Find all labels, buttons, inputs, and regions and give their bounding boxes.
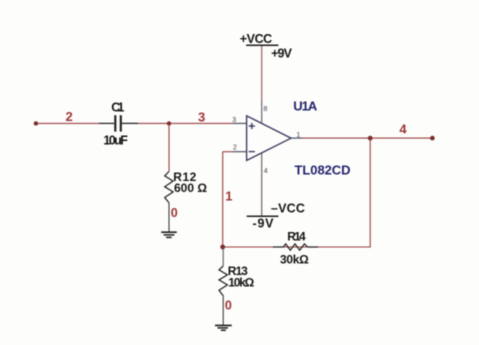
svg-text:+9V: +9V bbox=[271, 46, 293, 60]
svg-text:10kΩ: 10kΩ bbox=[228, 276, 254, 290]
wire VCC to pin8 bbox=[261, 45, 263, 100]
svg-text:1: 1 bbox=[225, 189, 232, 204]
svg-text:600 Ω: 600 Ω bbox=[174, 181, 207, 195]
svg-text:3: 3 bbox=[198, 109, 205, 124]
node output junction bbox=[368, 136, 373, 141]
svg-text:0: 0 bbox=[225, 299, 232, 313]
svg-text:R14: R14 bbox=[287, 230, 306, 244]
svg-text:TL082CD: TL082CD bbox=[295, 163, 351, 178]
svg-text:U1A: U1A bbox=[293, 99, 318, 114]
svg-text:1: 1 bbox=[296, 132, 300, 139]
svg-text:–VCC: –VCC bbox=[271, 202, 305, 216]
capacitor C1 bbox=[99, 115, 138, 131]
svg-text:C1: C1 bbox=[111, 101, 124, 115]
svg-text:2: 2 bbox=[66, 109, 73, 124]
svg-text:4: 4 bbox=[399, 122, 407, 137]
svg-text:2: 2 bbox=[233, 145, 237, 152]
wire R13 to ground bbox=[222, 296, 224, 326]
wire net2 input horizontal bbox=[36, 122, 99, 124]
svg-text:8: 8 bbox=[264, 106, 268, 113]
pin stub - input bbox=[233, 151, 247, 153]
node feedback junction bbox=[220, 245, 225, 250]
resistor R14 bbox=[273, 244, 318, 250]
svg-text:30kΩ: 30kΩ bbox=[280, 253, 309, 267]
wire junction to R13 bbox=[222, 247, 224, 266]
svg-text:3: 3 bbox=[232, 117, 236, 124]
pin stub + input bbox=[233, 122, 247, 124]
op-amp U1 bbox=[247, 116, 291, 161]
wire feedback right vertical bbox=[369, 138, 371, 247]
resistor R13 bbox=[219, 266, 227, 296]
wire net1 inverting input vertical bbox=[222, 152, 224, 247]
ground bottom bbox=[215, 325, 232, 330]
wire net4 output bbox=[302, 137, 432, 139]
resistor R12 bbox=[165, 172, 173, 203]
ground bbox=[161, 232, 177, 237]
wire branch down to R12 bbox=[168, 123, 170, 171]
wire feedback bottom horizontal bbox=[223, 246, 371, 248]
power +VCC bbox=[246, 44, 278, 46]
svg-text:0: 0 bbox=[171, 206, 178, 220]
power -VCC bbox=[247, 215, 279, 217]
svg-text:-9V: -9V bbox=[253, 217, 275, 231]
svg-text:4: 4 bbox=[264, 168, 268, 175]
wire pin4 to -VCC bbox=[261, 153, 263, 216]
node output endpoint bbox=[430, 136, 435, 141]
wire R12 to ground bbox=[168, 203, 170, 233]
pin stub output bbox=[291, 137, 302, 139]
node junction at branch bbox=[167, 121, 171, 125]
wire net3 cap to op-amp bbox=[138, 122, 233, 124]
svg-text:10uF: 10uF bbox=[103, 134, 128, 148]
wire net1 horizontal to - stub bbox=[223, 151, 233, 153]
svg-text:+VCC: +VCC bbox=[240, 32, 272, 46]
node input endpoint bbox=[34, 121, 38, 125]
